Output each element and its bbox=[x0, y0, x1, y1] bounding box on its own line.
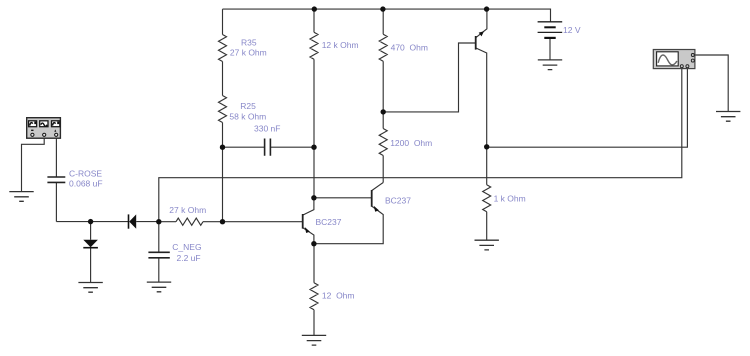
svg-text:R35: R35 bbox=[241, 38, 257, 48]
svg-text:R25: R25 bbox=[240, 101, 256, 111]
svg-text:0.068 uF: 0.068 uF bbox=[69, 179, 103, 189]
svg-text:12 k Ohm: 12 k Ohm bbox=[322, 40, 359, 50]
svg-text:27 k Ohm: 27 k Ohm bbox=[169, 205, 206, 215]
svg-text:BC237: BC237 bbox=[385, 196, 411, 206]
svg-text:1200 Ohm: 1200 Ohm bbox=[390, 138, 432, 148]
svg-text:27 k Ohm: 27 k Ohm bbox=[230, 48, 267, 58]
svg-text:C_NEG: C_NEG bbox=[172, 242, 201, 252]
svg-text:1 k Ohm: 1 k Ohm bbox=[494, 193, 526, 203]
svg-text:12 Ohm: 12 Ohm bbox=[322, 290, 355, 300]
svg-text:2.2 uF: 2.2 uF bbox=[177, 253, 201, 263]
svg-text:470 Ohm: 470 Ohm bbox=[391, 43, 428, 53]
svg-text:C-ROSE: C-ROSE bbox=[69, 169, 102, 179]
svg-text:12 V: 12 V bbox=[563, 25, 581, 35]
svg-text:330 nF: 330 nF bbox=[254, 123, 280, 133]
svg-text:58 k Ohm: 58 k Ohm bbox=[229, 111, 266, 121]
svg-text:BC237: BC237 bbox=[316, 217, 342, 227]
